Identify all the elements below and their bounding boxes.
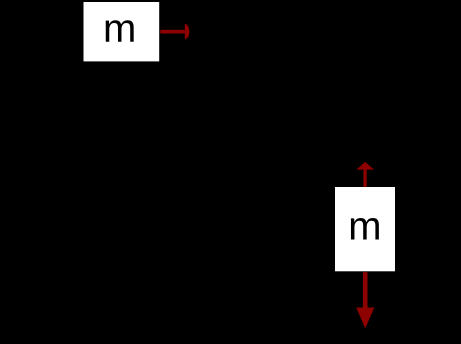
label m (block m1): [106, 20, 134, 42]
block m2 (hanging block): [335, 187, 395, 271]
force arrow up (tension on m2): [356, 162, 374, 187]
force arrow down (weight on m2): [356, 272, 374, 328]
force arrow right (applied force on m1): [160, 24, 189, 39]
label m (block m2): [351, 218, 379, 240]
block m1 (top-left block on surface): [84, 2, 160, 61]
